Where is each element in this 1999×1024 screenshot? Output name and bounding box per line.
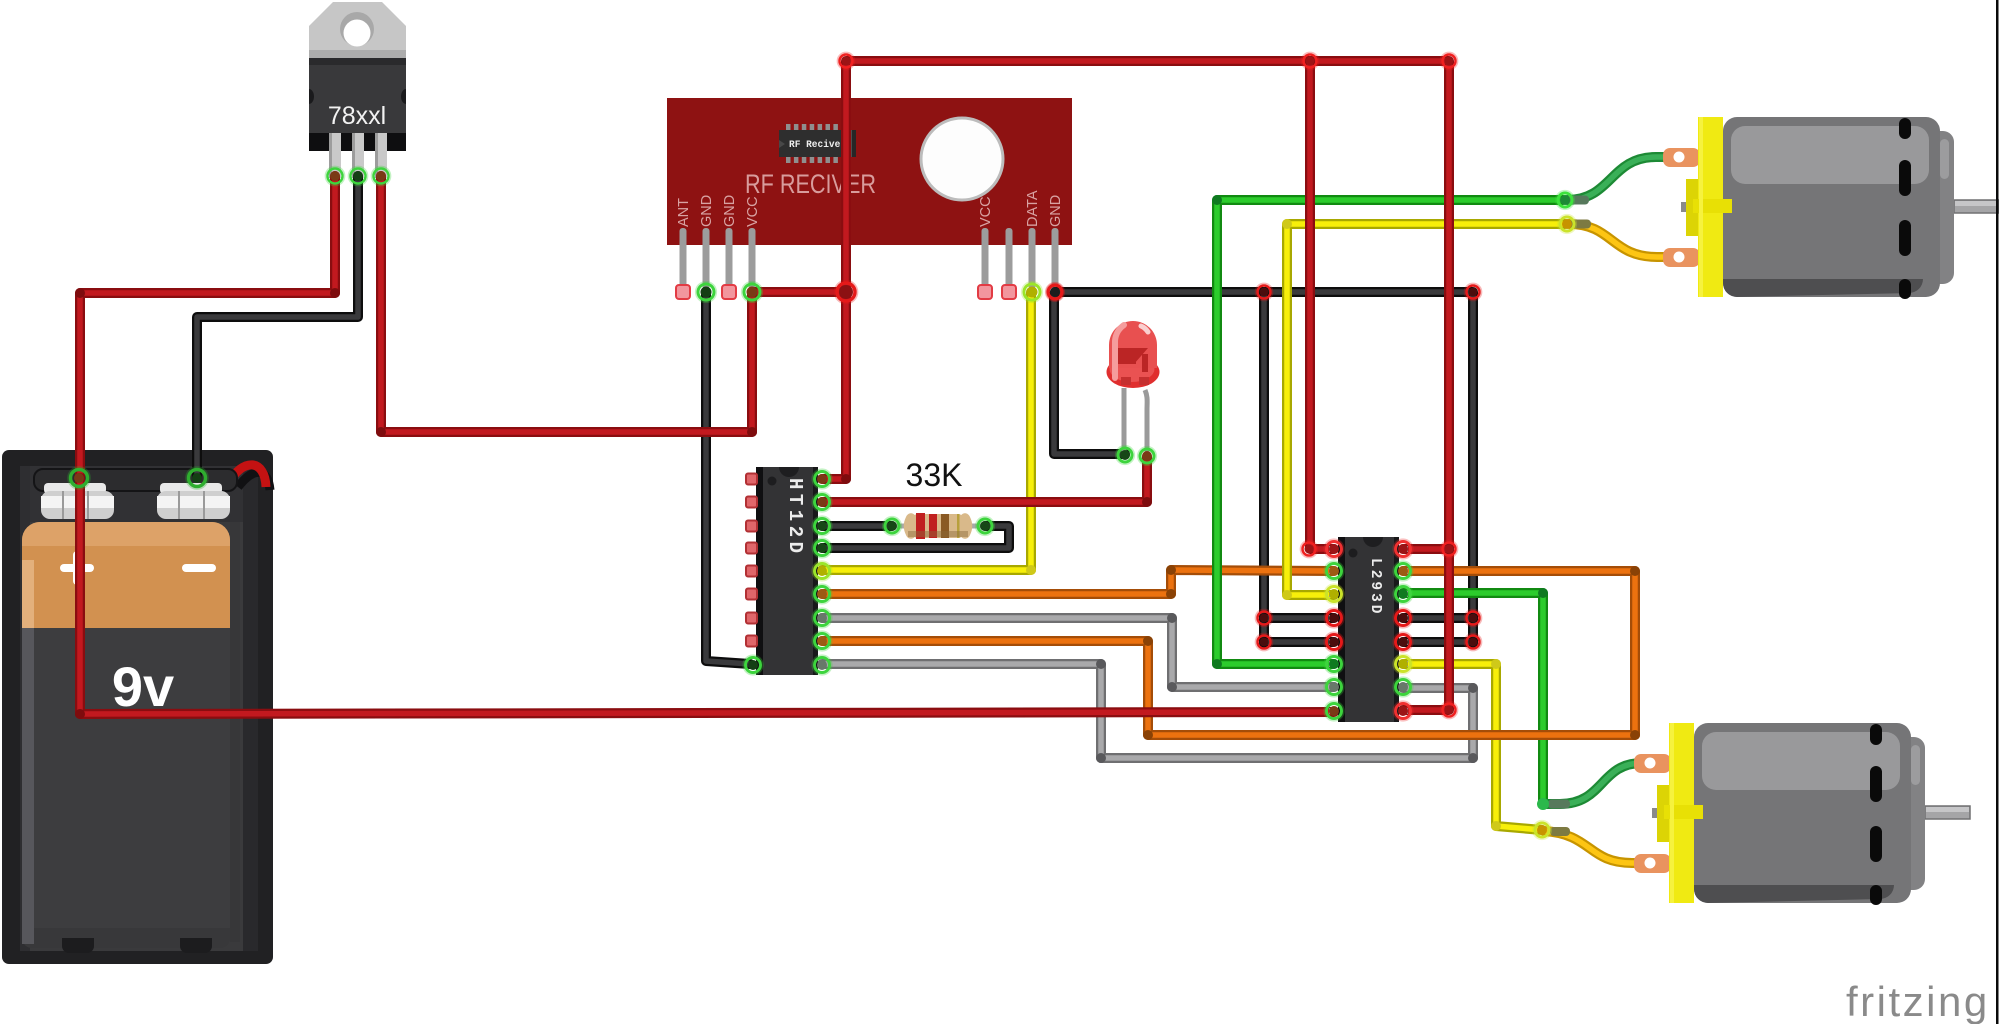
RF receiver module [667,98,1072,289]
junction GND net nodes [1046,283,1063,300]
RF pins connectors [676,285,690,299]
L293D pin rings [1324,539,1344,559]
wire yellow curve to motor M2 [1544,831,1650,863]
wire red regulator IN to battery plus [80,176,335,476]
IC U2 HT12D [746,467,826,675]
node motor2 green end [1537,798,1549,810]
yellow wire bend caps [1026,565,1036,575]
wire red regulator OUT to RF VCC [381,176,752,432]
svg-text:ANT: ANT [676,198,692,227]
wire black stub to L293D pin12 [1403,637,1473,647]
wire red RF VCC stub [752,287,846,297]
wire black stub to L293D pin5 [1264,637,1334,647]
wire black HT12D pin3 to resistor [822,521,892,531]
svg-text:78xxl: 78xxl [328,102,386,130]
node motor2 yellow join [1533,821,1552,840]
junction L293D pin16 node [1440,540,1457,557]
wire black RF GND to HT12D pin10 [706,292,750,664]
svg-text:RF RECIVER: RF RECIVER [745,169,876,199]
node motor1 green join [1556,191,1575,210]
resistor R1 33K [892,513,985,539]
svg-text:9v: 9v [112,655,174,718]
wire grey HT12D pin9 to L293D pin10 [822,664,1473,758]
orange wire bend caps [1166,589,1176,599]
HT12D pin rings [812,469,832,489]
wire grey HT12D pin7 to L293D pin7 [822,618,1334,687]
battery BT1 9v [2,450,273,964]
wire green L293D pin6 to motor1 [1217,200,1563,664]
wire black regulator GND to battery minus [197,176,358,476]
red wire bend caps [330,288,340,298]
junction RF VCC node [834,280,857,303]
motor M1 [1663,117,1999,299]
svg-text:GND: GND [699,195,715,227]
wire green L293D pin14 to motor2 [1403,593,1543,802]
motor M2 [1634,723,1970,905]
svg-text:fritzing: fritzing [1846,978,1990,1024]
junction L293D pin9 bend [1440,701,1457,718]
node motor1 yellow join [1558,215,1577,234]
node battery terminals [68,467,90,489]
wire green curve to motor M2 [1545,763,1650,804]
wire red HT12D pin1 to L293D pins 16-9 top rail [822,61,1449,710]
wire yellow curve to motor M1 [1569,224,1672,257]
wire red stub L293D pin16 [1403,544,1449,554]
wire black branch to L293D pin4 [1259,292,1269,643]
svg-text:RF Reciver: RF Reciver [789,139,846,151]
wire red HT12D pin2 to LED anode [822,457,1147,502]
svg-text:HT12D: HT12D [784,478,806,558]
voltage regulator U1 78xxl [309,2,406,178]
green wire bend caps [1212,659,1222,669]
svg-text:GND: GND [722,195,738,227]
wire yellow RF DATA to HT12D pin5 [822,292,1031,570]
frame border line [1996,0,1999,1024]
svg-text:33K: 33K [906,457,963,493]
svg-text:L293D: L293D [1367,558,1383,617]
svg-text:VCC: VCC [978,196,994,227]
wire black RF GND right rail [1055,292,1473,643]
wire black resistor to HT12D pin4 [822,526,1009,548]
wire yellow L293D pin3 to motor1 [1287,224,1565,595]
wire orange HT12D pin8 to L293D pin15 [822,571,1635,735]
junction L293D pin1 bend [1300,540,1317,557]
wire green curve to motor M1 [1567,157,1672,200]
wire black to LED cathode [1054,294,1125,454]
wire red branch to L293D pin1 [1310,61,1334,549]
IC U3 L293D [1329,537,1408,722]
node regulator pins [325,166,344,185]
svg-text:VCC: VCC [745,196,761,227]
wire red battery plus to L293D pin8 [80,478,1334,714]
wire yellow L293D pin11 to motor2 [1403,664,1542,830]
svg-text:GND: GND [1048,195,1064,227]
wire orange HT12D pin6 to L293D pin2 [822,570,1334,594]
wire black stub to L293D pin13 [1403,613,1473,623]
LED D1 [1107,321,1160,453]
svg-text:DATA: DATA [1025,190,1041,227]
wire black stub to L293D pin4 [1264,613,1334,623]
grey wire bend caps [1167,613,1177,623]
junction top rail node [1301,52,1318,69]
